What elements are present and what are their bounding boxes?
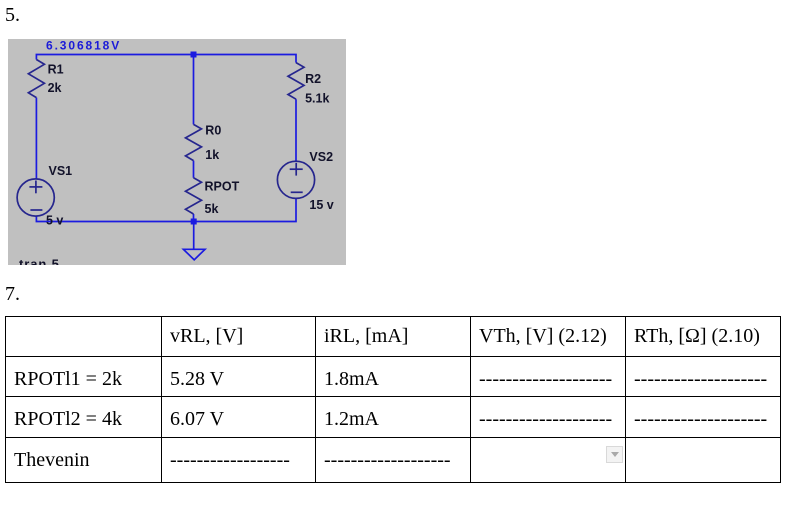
- wire bottom rail: [36, 198, 296, 221]
- wire RPOT to bottom rail: [193, 214, 195, 222]
- resistor R2: [288, 63, 304, 100]
- svg-text:VS2: VS2: [309, 150, 333, 164]
- resistor R0: [186, 124, 202, 160]
- svg-text:6.306818V: 6.306818V: [46, 39, 121, 53]
- wire top rail: [36, 55, 296, 63]
- svg-text:VS1: VS1: [49, 164, 73, 178]
- svg-text:2k: 2k: [48, 81, 62, 95]
- wire R0 to RPOT: [193, 161, 195, 178]
- svg-text:RPOT: RPOT: [205, 180, 240, 194]
- node junction bottom: [191, 219, 197, 225]
- wire R2 to VS2: [295, 99, 297, 161]
- label 5.: [5, 4, 20, 27]
- svg-text:R0: R0: [205, 124, 221, 138]
- label 7.: [5, 283, 20, 306]
- resistor RPOT: [186, 178, 202, 214]
- svg-text:5k: 5k: [205, 202, 219, 216]
- wire R1 to VS1: [35, 98, 37, 180]
- circuit schematic image: [8, 39, 346, 265]
- source VS1: [17, 179, 54, 216]
- svg-text:1k: 1k: [205, 148, 219, 162]
- source VS2: [277, 161, 314, 198]
- wire mid top to R0: [193, 55, 195, 125]
- svg-text:5 v: 5 v: [46, 213, 63, 227]
- svg-text:R1: R1: [48, 63, 64, 77]
- schematic gray background: [8, 39, 346, 265]
- svg-text:tran 5: tran 5: [19, 257, 60, 266]
- svg-text:R2: R2: [305, 72, 321, 86]
- svg-text:5.1k: 5.1k: [305, 92, 329, 106]
- node junction top: [191, 52, 197, 58]
- resistor R1: [28, 60, 44, 98]
- dropdown control: [606, 446, 623, 463]
- results table: [5, 316, 781, 483]
- ground: [183, 222, 205, 260]
- svg-text:15 v: 15 v: [309, 198, 333, 212]
